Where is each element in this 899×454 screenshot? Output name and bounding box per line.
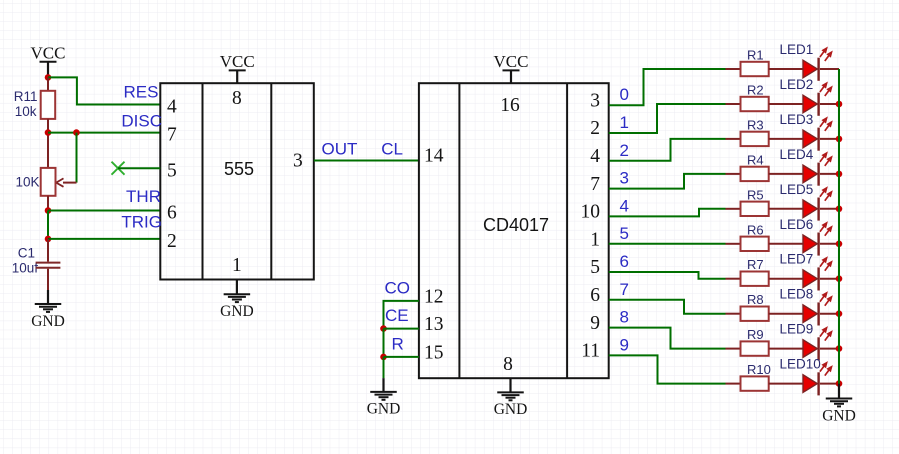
wire LED8 cathode to bus: [820, 313, 839, 315]
wire CD4017 output 1 to R2: [609, 104, 726, 133]
wire CD4017 pin 15 R stub: [384, 356, 419, 358]
wire 555 pin 5 stub: [118, 167, 160, 169]
LED LED3 emission arrows: [820, 120, 826, 127]
junction dot pot wiper tap: [73, 129, 80, 136]
svg-text:R6: R6: [747, 222, 764, 237]
svg-text:LED10: LED10: [780, 357, 821, 372]
svg-text:16: 16: [500, 95, 520, 116]
resistor R1 lead right / LED1 anode lead: [769, 68, 803, 70]
svg-text:R: R: [392, 335, 404, 354]
resistor R3 lead left: [726, 138, 741, 140]
svg-text:LED2: LED2: [780, 77, 814, 92]
svg-text:CO: CO: [385, 279, 411, 298]
potentiometer RV1 wiper lead: [63, 182, 77, 184]
LED LED9 emission arrows: [820, 329, 826, 336]
svg-text:7: 7: [167, 125, 177, 146]
junction dot bus row 2: [836, 101, 843, 108]
wire reset rail CE to R: [383, 329, 385, 357]
resistor R10 lead right / LED10 anode lead: [769, 383, 803, 385]
wire CD4017 output 3 to R4: [609, 174, 726, 189]
no-connect X on 555 pin 5: [112, 162, 125, 175]
resistor R7: [741, 272, 769, 286]
svg-text:9: 9: [620, 335, 629, 354]
LED LED6 cathode bar: [817, 233, 819, 256]
LED LED2 emission arrows: [820, 85, 826, 92]
wire CD4017 output 8 to R9: [609, 328, 726, 349]
svg-text:R5: R5: [747, 187, 764, 202]
svg-text:R3: R3: [747, 117, 764, 132]
resistor R2 lead right / LED2 anode lead: [769, 103, 803, 105]
wire LED4 cathode to bus: [820, 173, 839, 175]
svg-text:4: 4: [620, 196, 629, 215]
svg-text:GND: GND: [220, 303, 254, 320]
svg-text:14: 14: [424, 145, 444, 166]
resistor R8 lead left: [726, 313, 741, 315]
resistor R11 lead top: [47, 77, 49, 90]
svg-text:LED4: LED4: [780, 147, 814, 162]
resistor R9: [741, 341, 769, 355]
resistor R6 lead right / LED6 anode lead: [769, 243, 803, 245]
LED LED7 cathode bar: [817, 267, 819, 290]
svg-text:8: 8: [620, 308, 629, 327]
wire LED1 cathode to bus: [820, 68, 839, 70]
ground symbol (reset rail): [382, 378, 384, 392]
svg-text:LED3: LED3: [780, 112, 814, 127]
IC U1 555 timer body: [160, 83, 313, 279]
resistor R1: [741, 62, 769, 76]
resistor R8 lead right / LED8 anode lead: [769, 313, 803, 315]
junction dot bus row 5: [836, 206, 843, 213]
wire LED6 cathode to bus: [820, 243, 839, 245]
resistor R4 lead right / LED4 anode lead: [769, 173, 803, 175]
junction dot CE node: [380, 325, 387, 332]
svg-text:R11: R11: [14, 89, 38, 104]
wire reset rail to ground: [383, 357, 385, 378]
resistor R9 lead right / LED9 anode lead: [769, 348, 803, 350]
resistor R6: [741, 237, 769, 251]
junction dot bus row 7: [836, 275, 843, 282]
svg-text:GND: GND: [367, 401, 401, 418]
junction dot bus row 9: [836, 345, 843, 352]
LED LED5 triangle: [803, 200, 817, 218]
svg-text:2: 2: [620, 141, 629, 160]
svg-text:GND: GND: [494, 401, 528, 418]
LED LED1 cathode bar: [817, 58, 819, 81]
svg-text:9: 9: [590, 313, 600, 334]
resistor R9 lead left: [726, 348, 741, 350]
svg-text:12: 12: [424, 286, 444, 307]
wire 555 OUT to CD4017 CL: [314, 160, 419, 162]
junction dot bus row 3: [836, 136, 843, 143]
wire CD4017 pin 12 CO to reset rail: [384, 301, 419, 329]
wire CD4017 output 5 to R6: [609, 243, 726, 245]
wire LED7 cathode to bus: [820, 278, 839, 280]
svg-text:LED7: LED7: [780, 252, 814, 267]
svg-text:VCC: VCC: [220, 52, 255, 71]
svg-text:10: 10: [581, 202, 601, 223]
junction dot bus row 10: [836, 380, 843, 387]
LED LED10 emission arrows: [820, 364, 826, 371]
resistor R10 lead left: [726, 383, 741, 385]
wire cathode bus: [838, 69, 840, 384]
wire LED9 cathode to bus: [820, 348, 839, 350]
svg-text:LED5: LED5: [780, 182, 814, 197]
svg-text:R2: R2: [747, 83, 764, 98]
capacitor C1 plates: [36, 262, 61, 264]
LED LED2 triangle: [803, 95, 817, 113]
wire DISC node to 555 pin 7: [48, 132, 160, 134]
LED LED8 cathode bar: [817, 302, 819, 325]
resistor R11 lead bottom / pot top lead: [47, 119, 49, 168]
resistor R5 lead right / LED5 anode lead: [769, 208, 803, 210]
resistor R1 lead left: [726, 68, 741, 70]
svg-text:10K: 10K: [15, 175, 39, 190]
svg-text:5: 5: [167, 160, 177, 181]
LED LED5 emission arrows: [820, 189, 826, 196]
svg-text:6: 6: [167, 203, 177, 224]
svg-text:4: 4: [167, 97, 177, 118]
wire LED3 cathode to bus: [820, 138, 839, 140]
wire CD4017 output 7 to R8: [609, 300, 726, 314]
LED LED3 triangle: [803, 130, 817, 148]
counter U2 CD4017 body: [419, 83, 609, 378]
svg-text:7: 7: [590, 174, 600, 195]
svg-text:CD4017: CD4017: [483, 215, 549, 235]
svg-text:VCC: VCC: [494, 52, 529, 71]
svg-text:R10: R10: [747, 362, 771, 377]
LED LED8 triangle: [803, 305, 817, 323]
svg-text:CE: CE: [385, 306, 409, 325]
resistor R3 lead right / LED3 anode lead: [769, 138, 803, 140]
svg-text:R7: R7: [747, 257, 764, 272]
resistor R8: [741, 307, 769, 321]
LED LED6 emission arrows: [820, 224, 826, 231]
svg-text:LED8: LED8: [780, 287, 814, 302]
wire VCC node to 555 pin 4 (RES): [48, 77, 160, 104]
resistor R10: [741, 376, 769, 390]
svg-text:R1: R1: [747, 48, 764, 63]
wire CD4017 output 6 to R7: [609, 272, 726, 279]
LED LED10 cathode bar: [817, 372, 819, 395]
ground symbol (C1): [47, 290, 49, 304]
svg-text:LED1: LED1: [780, 42, 814, 57]
wire CD4017 output 2 to R3: [609, 139, 726, 161]
svg-text:8: 8: [232, 88, 242, 109]
LED LED7 triangle: [803, 270, 817, 288]
LED LED8 emission arrows: [820, 294, 826, 301]
svg-text:R4: R4: [747, 152, 764, 167]
svg-text:GND: GND: [31, 313, 65, 330]
wire LED5 cathode to bus: [820, 208, 839, 210]
resistor R6 lead left: [726, 243, 741, 245]
resistor R7 lead left: [726, 278, 741, 280]
svg-text:1: 1: [620, 113, 629, 132]
potentiometer RV1 wiper arrow: [56, 178, 63, 186]
svg-text:GND: GND: [822, 407, 856, 424]
capacitor C1 lead bottom: [47, 269, 49, 291]
svg-text:OUT: OUT: [322, 140, 358, 159]
LED LED4 emission arrows: [820, 155, 826, 162]
wire THR node to 555 pin 6: [48, 210, 160, 212]
svg-text:CL: CL: [381, 140, 403, 159]
junction dot VCC/R11/RES node: [45, 74, 52, 81]
resistor R7 lead right / LED7 anode lead: [769, 278, 803, 280]
ground symbol (CD4017 pin 8): [509, 378, 511, 392]
junction dot THR node: [45, 207, 52, 214]
LED LED4 triangle: [803, 165, 817, 183]
svg-text:LED9: LED9: [780, 322, 814, 337]
svg-text:0: 0: [620, 85, 629, 104]
resistor R11: [41, 91, 56, 119]
svg-text:R8: R8: [747, 292, 764, 307]
resistor R2 lead left: [726, 103, 741, 105]
svg-text:1: 1: [232, 255, 242, 276]
LED LED4 cathode bar: [817, 163, 819, 186]
svg-text:5: 5: [620, 224, 629, 243]
svg-text:3: 3: [590, 90, 600, 111]
svg-text:THR: THR: [126, 187, 161, 206]
wire CD4017 output 9 to R10: [609, 355, 726, 383]
svg-text:2: 2: [167, 231, 177, 252]
junction dot bus row 6: [836, 241, 843, 248]
junction dot R node: [380, 354, 387, 361]
resistor R4: [741, 167, 769, 181]
wire pot wiper to DISC node: [76, 133, 78, 183]
svg-text:10uf: 10uf: [12, 260, 39, 275]
svg-text:10k: 10k: [15, 104, 37, 119]
junction dot bus row 8: [836, 310, 843, 317]
ground symbol (555 pin 1): [236, 280, 238, 295]
svg-text:555: 555: [224, 159, 254, 179]
wire THR node to TRIG node: [47, 211, 49, 239]
potentiometer RV1 body: [41, 168, 56, 196]
svg-text:15: 15: [424, 342, 444, 363]
LED LED9 triangle: [803, 340, 817, 358]
svg-text:3: 3: [620, 169, 629, 188]
LED LED1 emission arrows: [820, 50, 826, 57]
svg-text:R9: R9: [747, 327, 764, 342]
resistor R5 lead left: [726, 208, 741, 210]
svg-text:4: 4: [590, 146, 600, 167]
LED LED6 triangle: [803, 235, 817, 253]
wire CD4017 output 4 to R5: [609, 209, 726, 217]
svg-text:2: 2: [590, 118, 600, 139]
svg-text:3: 3: [293, 151, 303, 172]
svg-text:5: 5: [590, 257, 600, 278]
LED LED10 triangle: [803, 375, 817, 393]
ground symbol (LED bus): [838, 384, 840, 399]
LED LED2 cathode bar: [817, 93, 819, 116]
LED LED5 cathode bar: [817, 198, 819, 221]
svg-text:TRIG: TRIG: [121, 213, 162, 232]
resistor R2: [741, 97, 769, 111]
svg-text:VCC: VCC: [31, 43, 66, 62]
svg-text:C1: C1: [18, 246, 35, 261]
svg-text:1: 1: [590, 229, 600, 250]
junction dot DISC node: [45, 129, 52, 136]
wire CD4017 output 0 to R1: [609, 69, 726, 105]
svg-text:8: 8: [503, 354, 513, 375]
LED LED9 cathode bar: [817, 337, 819, 360]
LED LED1 triangle: [803, 60, 817, 78]
wire TRIG node to 555 pin 2: [48, 238, 160, 240]
svg-text:DISC: DISC: [121, 112, 162, 131]
svg-text:RES: RES: [124, 83, 159, 102]
resistor R5: [741, 202, 769, 216]
svg-text:6: 6: [590, 285, 600, 306]
resistor R4 lead left: [726, 173, 741, 175]
svg-text:6: 6: [620, 252, 629, 271]
svg-text:7: 7: [620, 280, 629, 299]
wire LED10 cathode to bus: [820, 383, 839, 385]
wire LED2 cathode to bus: [820, 103, 839, 105]
svg-text:13: 13: [424, 314, 444, 335]
junction dot bus row 4: [836, 171, 843, 178]
resistor R3: [741, 132, 769, 146]
LED LED7 emission arrows: [820, 259, 826, 266]
capacitor C1 lead top: [47, 239, 49, 262]
wire CD4017 pin 13 CE stub: [384, 328, 419, 330]
junction dot TRIG node: [45, 236, 52, 243]
LED LED3 cathode bar: [817, 128, 819, 151]
svg-text:LED6: LED6: [780, 217, 814, 232]
svg-text:11: 11: [581, 341, 600, 362]
potentiometer RV1 lead bottom: [47, 196, 49, 211]
